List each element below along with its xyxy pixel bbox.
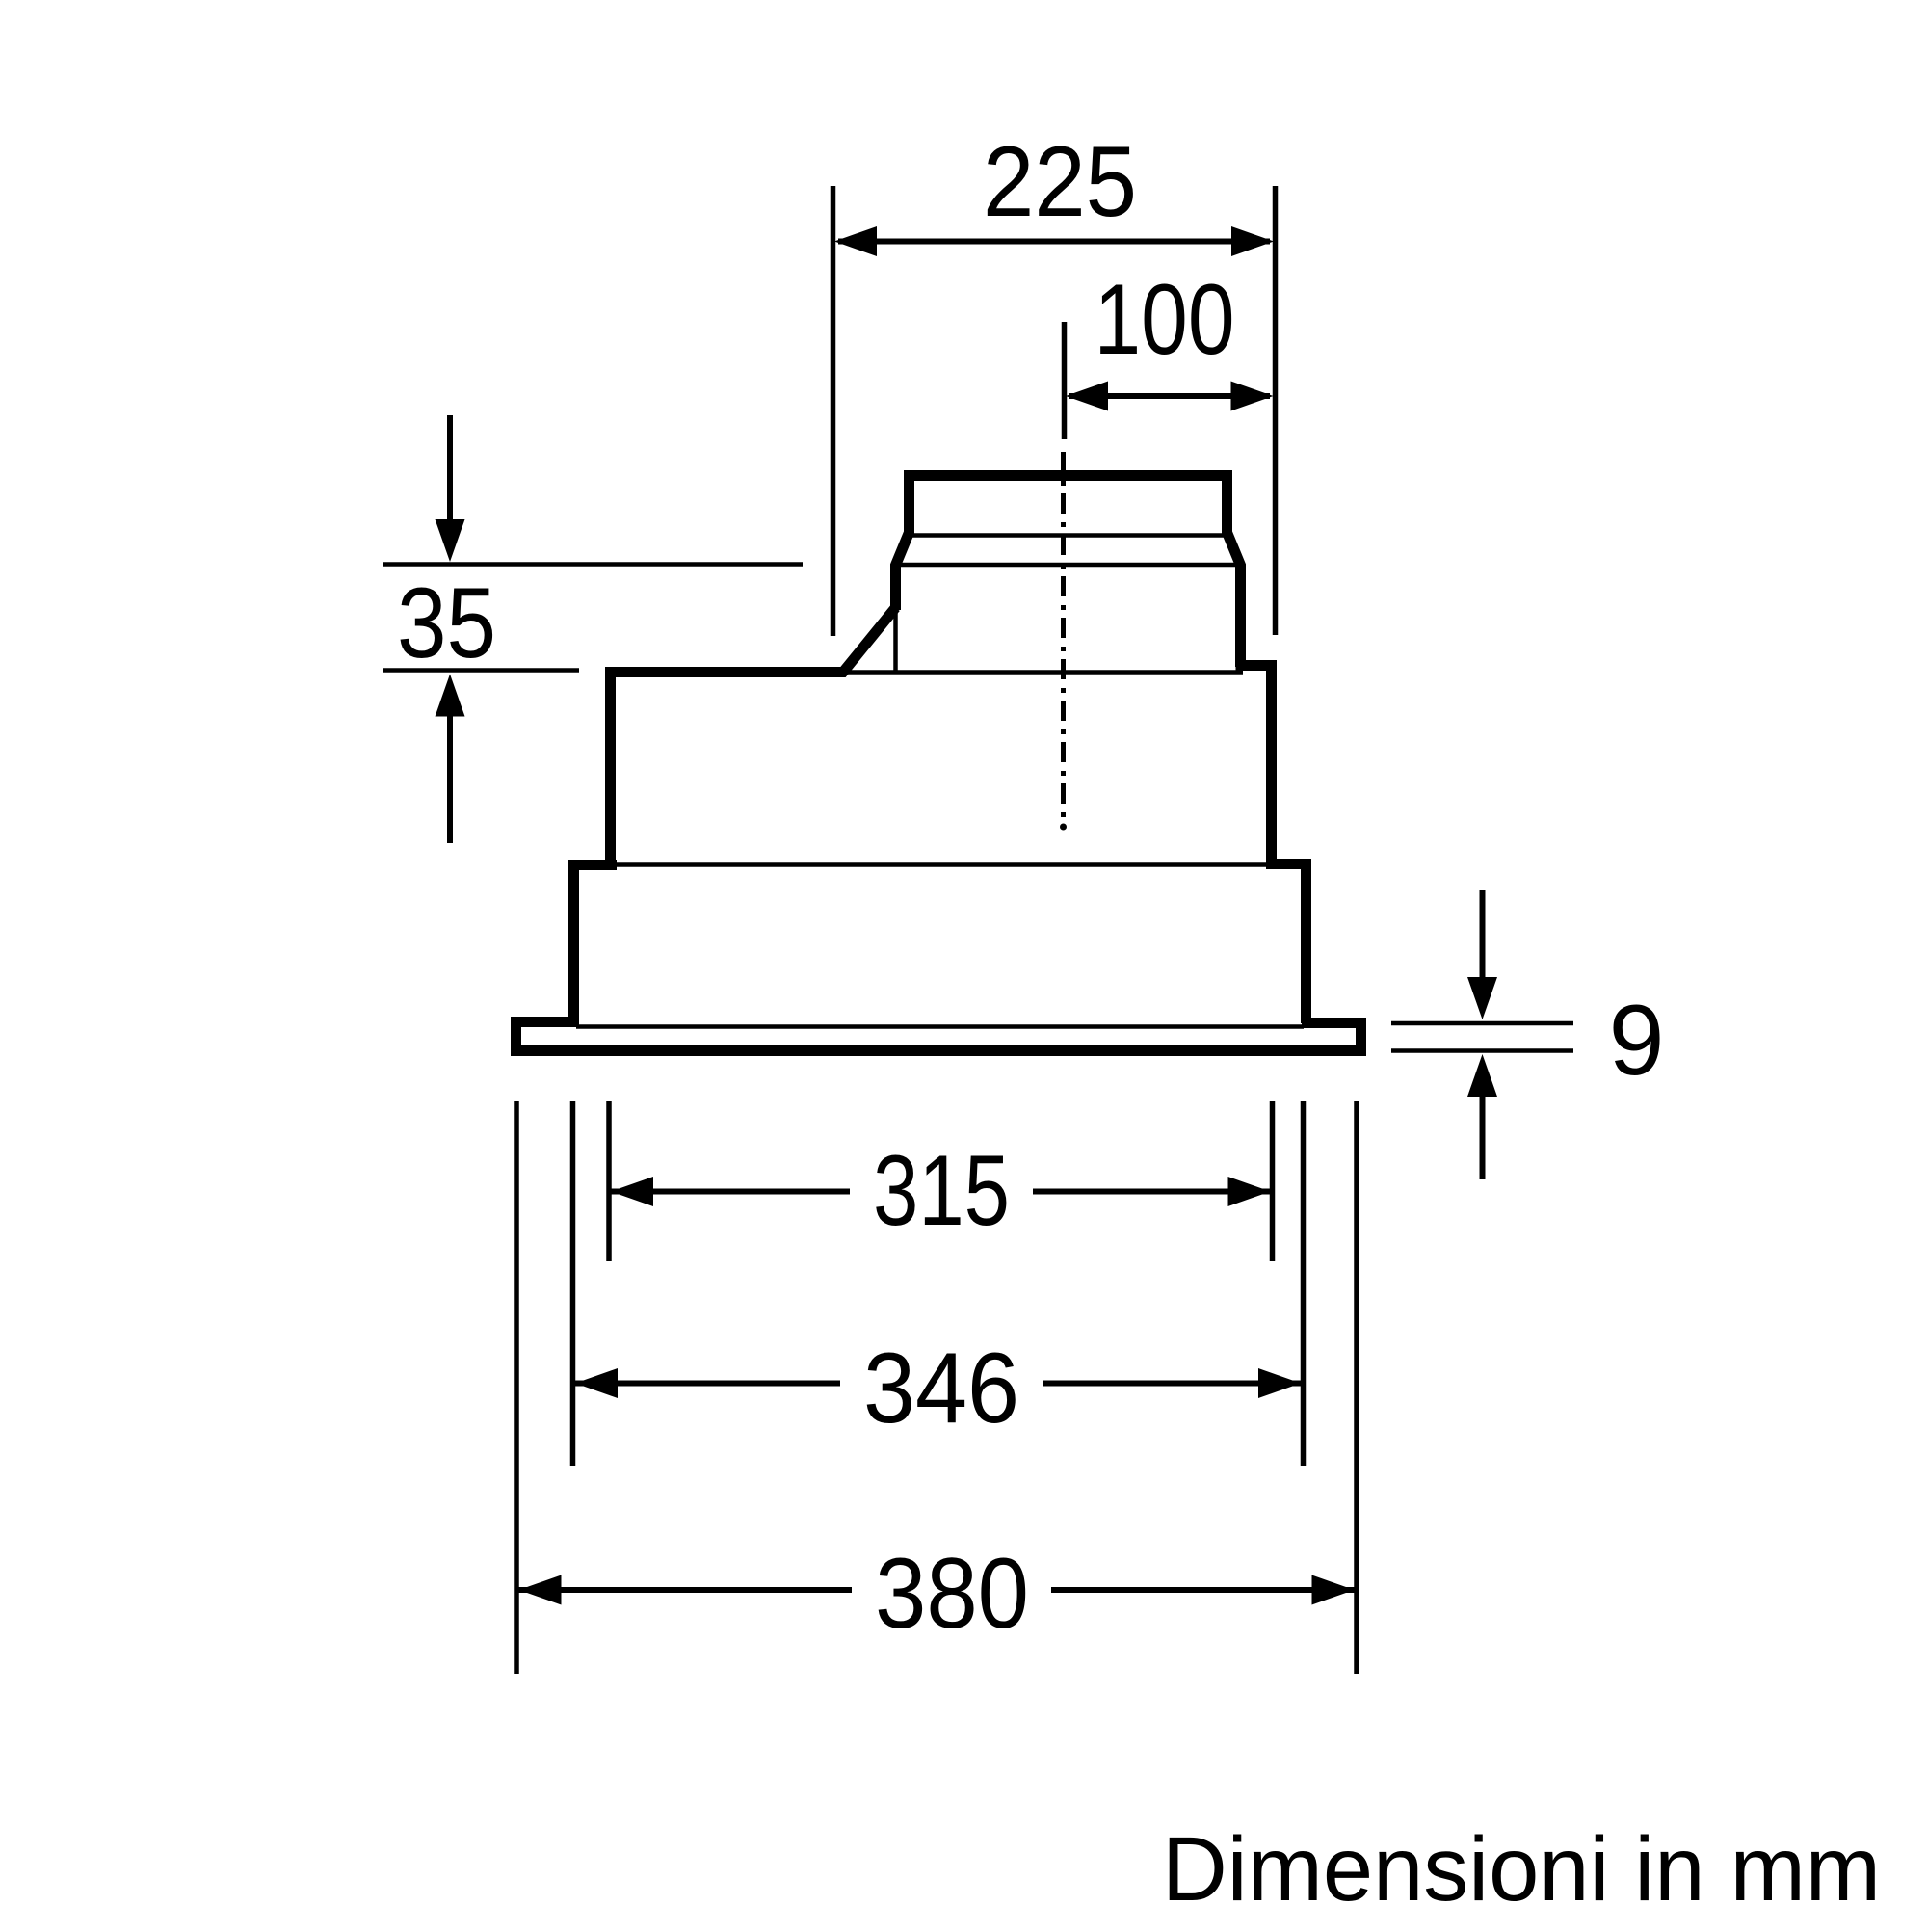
left step and middle-body left wall (thick) — [574, 865, 618, 1024]
arrowhead 100 right — [1231, 382, 1274, 411]
arrowhead 315 left — [611, 1177, 653, 1206]
arrowhead 346 right — [1258, 1368, 1301, 1398]
arrowhead 346 left — [575, 1368, 618, 1398]
duct right wall, housing right wall, right step (thick) — [1236, 666, 1307, 1024]
dim line 346 right segment — [1043, 1381, 1301, 1387]
arrowhead 225 left — [834, 226, 877, 256]
dim line 100 — [1069, 393, 1270, 399]
dim 35 upper line — [383, 562, 803, 567]
duct cap outline (thick) — [896, 476, 1241, 668]
svg-text:Dimensioni in mm: Dimensioni in mm — [1162, 1818, 1881, 1920]
arrowhead 315 right — [1228, 1177, 1271, 1206]
svg-text:35: 35 — [397, 568, 496, 679]
ext line 225 left — [831, 186, 836, 636]
arrowhead 380 right — [1312, 1575, 1355, 1605]
ext line 225/100 right — [1273, 186, 1279, 635]
arrowhead 380 left — [519, 1575, 562, 1605]
bottom plate top line middle (thin) — [576, 1024, 1304, 1029]
duct flare bottom line — [891, 563, 1245, 568]
ext line 315 left — [606, 1101, 612, 1261]
svg-text:225: 225 — [983, 126, 1137, 238]
ext line 380 right — [1354, 1101, 1359, 1674]
housing top edge behind duct (thin) — [841, 670, 1243, 675]
dim line 346 left segment — [575, 1381, 840, 1387]
dim line 380 right segment — [1051, 1587, 1355, 1593]
ext line 380 left — [514, 1101, 519, 1674]
dim line 225 — [838, 239, 1270, 245]
arrowhead 35 down — [436, 519, 465, 562]
dim 9 top line — [1391, 1021, 1573, 1026]
dim 9 bottom line — [1391, 1048, 1573, 1053]
step line across (thin) — [615, 862, 1268, 867]
bottom plate outline (thick) — [516, 1022, 1361, 1051]
dim 35 down arrow line — [447, 415, 453, 525]
dim 9 down arrow line — [1480, 890, 1486, 983]
dim 35 lower line — [383, 668, 579, 673]
svg-text:100: 100 — [1095, 264, 1235, 376]
arrowhead 225 right — [1231, 226, 1274, 256]
arrowhead 9 down — [1467, 977, 1497, 1019]
arrowhead 100 left — [1066, 382, 1108, 411]
ext line 100 left — [1062, 322, 1068, 439]
duct left wall lower (thin) — [893, 606, 898, 675]
centerline end dot — [1060, 824, 1067, 831]
dim 9 up arrow line — [1480, 1096, 1486, 1179]
arrowhead 35 up — [436, 675, 465, 717]
dim line 315 right segment — [1033, 1189, 1271, 1195]
dim line 315 left segment — [611, 1189, 850, 1195]
svg-text:346: 346 — [863, 1333, 1019, 1444]
housing top edge and left wall (thick) — [611, 608, 896, 870]
duct cap inner line — [911, 533, 1225, 538]
dim 35 up arrow line — [447, 716, 453, 843]
ext line 346 left — [570, 1101, 576, 1466]
svg-text:315: 315 — [873, 1135, 1010, 1247]
centerline (dash-dot) — [1061, 452, 1066, 821]
ext line 315 right — [1270, 1101, 1276, 1261]
ext line 346 right — [1301, 1101, 1307, 1466]
dim line 380 left segment — [519, 1587, 853, 1593]
arrowhead 9 up — [1467, 1054, 1497, 1097]
svg-text:9: 9 — [1609, 985, 1665, 1097]
svg-text:380: 380 — [875, 1538, 1029, 1650]
